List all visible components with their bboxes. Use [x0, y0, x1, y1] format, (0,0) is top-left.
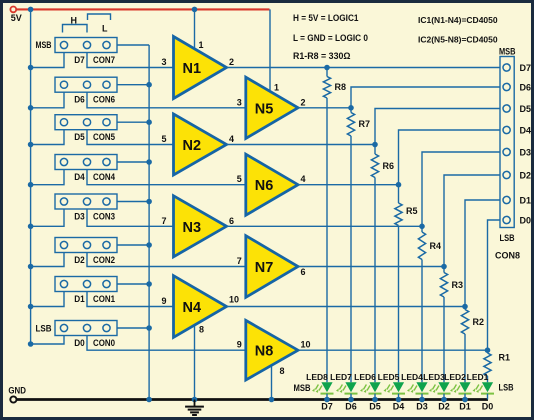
wire R3 to LED3 — [443, 297, 445, 382]
label D2 (LED bit) — [438, 402, 450, 412]
resistor R4 — [418, 226, 425, 259]
wire buffer output to CON8 D5 — [227, 109, 503, 148]
svg-text:CON4: CON4 — [93, 172, 115, 182]
svg-text:7: 7 — [237, 256, 242, 266]
wire CON1 left pin to 5V rail — [31, 292, 64, 307]
5V rail (red) — [16, 8, 269, 10]
wire CON4 middle pin to buffer input — [87, 170, 246, 185]
svg-text:LED1: LED1 — [467, 372, 489, 382]
label R7 — [359, 119, 371, 129]
svg-text:R8: R8 — [335, 82, 347, 92]
wire N1 output to CON8 D7 — [227, 65, 503, 71]
junction on mid rail — [146, 159, 152, 165]
svg-text:CON6: CON6 — [93, 95, 115, 105]
label D6 (LED bit) — [345, 402, 357, 412]
wire R7 to LED7 — [350, 136, 352, 382]
wire R6 to LED6 — [374, 178, 376, 383]
resistor R7 — [347, 108, 354, 136]
svg-text:D0: D0 — [74, 338, 85, 348]
wire CON6 middle pin to buffer input — [87, 92, 246, 108]
svg-text:R2: R2 — [473, 317, 485, 327]
wire CON0 middle pin to buffer input — [87, 336, 246, 351]
svg-text:D5: D5 — [74, 132, 85, 142]
svg-text:D3: D3 — [74, 212, 85, 222]
junction on mid rail — [146, 119, 152, 125]
wire CON2 right pin to ground rail — [117, 244, 149, 246]
svg-text:CON5: CON5 — [93, 132, 115, 142]
label LED3 — [423, 372, 445, 382]
pin label 4 (N2 output) — [229, 134, 234, 144]
svg-text:7: 7 — [161, 216, 166, 226]
svg-text:CON0: CON0 — [93, 338, 115, 348]
note IC2 — [418, 35, 498, 45]
wire buffer output to CON8 D6 — [298, 87, 502, 111]
label MSB (LED row) — [294, 383, 311, 393]
wire CON3 left pin to 5V rail — [31, 209, 64, 226]
wire R1 to LED1 — [487, 376, 489, 382]
svg-text:D2: D2 — [520, 171, 532, 181]
svg-text:LED5: LED5 — [378, 372, 400, 382]
wire CON7 left pin to 5V rail — [31, 53, 64, 68]
pin label 9 (N4 input) — [161, 296, 166, 306]
wire buffer output to CON8 D3 — [227, 152, 503, 229]
connector CON4 — [55, 155, 117, 183]
note IC1 — [418, 15, 498, 25]
svg-text:L = GND = LOGIC 0: L = GND = LOGIC 0 — [293, 33, 368, 44]
svg-text:R3: R3 — [452, 280, 464, 290]
wire CON7 middle pin to buffer input — [87, 53, 174, 68]
wire R5 to LED5 — [398, 226, 400, 383]
svg-text:N8: N8 — [255, 344, 274, 360]
svg-text:MSB: MSB — [499, 47, 516, 57]
buffer N8 — [246, 320, 298, 380]
svg-text:D2: D2 — [438, 402, 450, 412]
ground rail — [17, 398, 489, 401]
svg-text:LED8: LED8 — [306, 372, 328, 382]
wire R8 to LED8 — [326, 98, 328, 382]
svg-text:D3: D3 — [520, 148, 532, 158]
label R6 — [383, 161, 395, 171]
wire R2 to LED2 — [464, 334, 466, 382]
svg-text:5V: 5V — [11, 13, 22, 23]
label LED2 — [444, 372, 466, 382]
label L bracket — [88, 14, 111, 34]
svg-text:R5: R5 — [406, 206, 418, 216]
svg-text:D1: D1 — [520, 196, 532, 206]
svg-text:IC2(N5-N8)=CD4050: IC2(N5-N8)=CD4050 — [418, 35, 498, 45]
label H bracket — [63, 16, 88, 33]
wire IC2 pin8 to ground — [269, 365, 285, 402]
svg-text:GND: GND — [8, 385, 26, 395]
wire buffer output to CON8 D0 — [298, 220, 502, 353]
label R3 — [452, 280, 464, 290]
label LSB (CON0) — [36, 324, 52, 334]
label LED7 — [330, 372, 352, 382]
resistor R3 — [440, 267, 447, 298]
label LED1 — [467, 372, 489, 382]
pin label 10 (N8 output) — [301, 340, 311, 350]
junction on mid rail — [146, 199, 152, 205]
svg-text:N5: N5 — [255, 101, 274, 117]
buffer N5 — [246, 77, 298, 138]
svg-text:N7: N7 — [255, 260, 274, 276]
svg-text:MSB: MSB — [294, 383, 311, 393]
wire CON4 left pin to 5V rail — [31, 170, 64, 185]
svg-text:N6: N6 — [255, 178, 274, 194]
buffer N1 — [174, 37, 227, 99]
junction LED3 at ground rail — [441, 397, 447, 403]
pin label 5 (N2 input) — [161, 134, 166, 144]
wire CON3 middle pin to buffer input — [87, 209, 174, 226]
svg-text:N3: N3 — [183, 220, 202, 236]
svg-text:CON1: CON1 — [93, 294, 115, 304]
svg-text:3: 3 — [161, 57, 166, 67]
svg-text:D1: D1 — [74, 294, 85, 304]
label D5 (LED bit) — [369, 402, 381, 412]
svg-text:LED4: LED4 — [401, 372, 423, 382]
svg-text:LED6: LED6 — [354, 372, 376, 382]
svg-text:4: 4 — [229, 134, 234, 144]
svg-text:LED3: LED3 — [423, 372, 445, 382]
label LED6 — [354, 372, 376, 382]
junction LED6 at ground rail — [372, 397, 378, 403]
svg-text:LSB: LSB — [499, 383, 514, 393]
label R1 — [499, 353, 511, 363]
svg-text:8: 8 — [280, 366, 285, 376]
label LSB (LED row) — [499, 383, 514, 393]
svg-text:1: 1 — [199, 40, 204, 50]
wire CON5 middle pin to buffer input — [87, 130, 174, 145]
connector CON2 — [55, 238, 117, 266]
wire buffer output to CON8 D1 — [227, 200, 503, 309]
wire LED8 to ground — [326, 394, 328, 400]
svg-text:N1: N1 — [183, 61, 202, 77]
pin label 9 (N8 input) — [237, 340, 242, 350]
pin label 6 (N7 output) — [301, 267, 306, 277]
pin label 3 (N5 input) — [237, 97, 242, 107]
svg-text:D4: D4 — [520, 126, 532, 136]
wire IC1 pin1 from 5V rail — [192, 7, 204, 50]
label LSB (CON8) — [500, 233, 515, 243]
resistor R8 — [323, 68, 330, 99]
svg-text:D0: D0 — [482, 402, 494, 412]
svg-text:LSB: LSB — [36, 324, 52, 334]
svg-text:R7: R7 — [359, 119, 371, 129]
resistor R1 — [484, 350, 491, 376]
svg-text:D6: D6 — [345, 402, 357, 412]
pin label 4 (N6 output) — [301, 174, 306, 184]
junction LED5 at ground rail — [396, 397, 402, 403]
wire CON3 right pin to ground rail — [117, 201, 149, 203]
connector CON8 — [500, 57, 514, 228]
svg-text:N2: N2 — [183, 138, 202, 154]
svg-text:L: L — [102, 24, 108, 34]
svg-text:IC1(N1-N4)=CD4050: IC1(N1-N4)=CD4050 — [418, 15, 498, 25]
svg-text:1: 1 — [274, 83, 279, 93]
label D0 (LED bit) — [482, 402, 494, 412]
svg-text:D7: D7 — [321, 402, 333, 412]
junction LED7 at ground rail — [348, 397, 354, 403]
svg-text:6: 6 — [301, 267, 306, 277]
LED LED2 — [450, 382, 472, 393]
wire CON5 left pin to 5V rail — [31, 130, 64, 145]
pin label 6 (N3 output) — [229, 216, 234, 226]
svg-text:9: 9 — [161, 296, 166, 306]
svg-text:H = 5V = LOGIC1: H = 5V = LOGIC1 — [293, 13, 359, 24]
wire LED2 to ground — [464, 394, 466, 400]
wire CON1 right pin to ground rail — [117, 283, 149, 285]
wire R4 to LED4 — [421, 260, 423, 383]
junction on 5V rail — [28, 304, 34, 310]
connector CON3 — [55, 194, 117, 222]
buffer N3 — [174, 196, 227, 257]
LED LED7 — [336, 382, 358, 393]
svg-text:D4: D4 — [74, 172, 85, 182]
resistor R5 — [395, 185, 402, 226]
junction on 5V rail — [28, 65, 34, 71]
label MSB (CON8) — [499, 47, 516, 57]
svg-text:9: 9 — [237, 340, 242, 350]
junction mid rail at ground — [146, 397, 152, 403]
wire LED1 to ground — [487, 394, 489, 400]
wire CON7 right pin to ground rail — [117, 44, 149, 46]
label LED5 — [378, 372, 400, 382]
svg-text:8: 8 — [199, 325, 204, 335]
wire CON6 right pin to ground rail — [117, 84, 149, 86]
svg-text:D6: D6 — [74, 95, 85, 105]
label D4 (LED bit) — [393, 402, 405, 412]
wire LED6 to ground — [374, 394, 376, 400]
label CON8 — [495, 251, 520, 261]
note resistor values — [293, 51, 351, 62]
svg-text:10: 10 — [301, 340, 311, 350]
LED LED8 — [312, 382, 334, 393]
svg-text:D5: D5 — [369, 402, 381, 412]
svg-text:D6: D6 — [520, 83, 532, 93]
junction on 5V rail — [28, 105, 34, 111]
junction on mid rail — [146, 281, 152, 287]
svg-text:CON3: CON3 — [93, 212, 115, 222]
connector CON0 — [55, 321, 117, 349]
svg-text:2: 2 — [229, 57, 234, 67]
wire CON2 middle pin to buffer input — [87, 253, 246, 267]
svg-text:CON2: CON2 — [93, 255, 115, 265]
resistor R2 — [461, 307, 468, 335]
svg-text:D7: D7 — [520, 63, 532, 73]
pin label 10 (N4 output) — [229, 295, 239, 305]
wire LED5 to ground — [398, 394, 400, 400]
connector CON1 — [55, 277, 117, 305]
svg-text:D0: D0 — [520, 216, 532, 226]
label R2 — [473, 317, 485, 327]
svg-text:D2: D2 — [74, 255, 85, 265]
svg-text:4: 4 — [301, 174, 306, 184]
svg-text:CON8: CON8 — [495, 251, 520, 261]
svg-text:5: 5 — [237, 174, 242, 184]
svg-text:MSB: MSB — [36, 40, 52, 50]
wire CON6 left pin to 5V rail — [31, 92, 64, 108]
svg-text:5: 5 — [161, 134, 166, 144]
ground symbol — [185, 400, 204, 416]
wire 5V left rail — [28, 7, 34, 344]
connector CON7 — [55, 38, 117, 66]
label D3 (LED bit) — [416, 402, 428, 412]
note H logic — [293, 13, 359, 24]
LED LED5 — [384, 382, 406, 393]
pin label 7 (N3 input) — [161, 216, 166, 226]
junction on 5V rail — [28, 182, 34, 188]
LED LED4 — [407, 382, 429, 393]
wire CON5 right pin to ground rail — [117, 121, 149, 123]
pin label 2 (N5 output) — [301, 97, 306, 107]
buffer N6 — [246, 154, 298, 215]
wire CON4 right pin to ground rail — [117, 161, 149, 163]
wire buffer output to CON8 D4 — [298, 130, 502, 188]
note L logic — [293, 33, 368, 44]
LED LED1 — [473, 382, 495, 393]
label MSB (CON7) — [36, 40, 52, 50]
svg-text:3: 3 — [237, 97, 242, 107]
svg-text:R6: R6 — [383, 161, 395, 171]
LED LED6 — [360, 382, 382, 393]
GND terminal — [8, 385, 26, 402]
wire CON0 left pin to 5V rail — [31, 336, 64, 345]
5V supply terminal — [10, 6, 21, 22]
wire CON2 left pin to 5V rail — [31, 253, 64, 267]
buffer N7 — [246, 236, 298, 298]
svg-text:D5: D5 — [520, 104, 532, 114]
wire LED3 to ground — [443, 394, 445, 400]
label R4 — [430, 241, 442, 251]
wire LED7 to ground — [350, 394, 352, 400]
svg-text:LSB: LSB — [500, 233, 515, 243]
resistor R6 — [371, 145, 378, 178]
connector CON5 — [55, 115, 117, 143]
pin label 7 (N7 input) — [237, 256, 242, 266]
label R8 — [335, 82, 347, 92]
svg-text:D3: D3 — [416, 402, 428, 412]
junction LED2 at ground rail — [462, 397, 468, 403]
svg-text:CON7: CON7 — [93, 55, 115, 65]
junction on mid rail — [146, 242, 152, 248]
wire LED4 to ground — [421, 394, 423, 400]
wire buffer output to CON8 D2 — [298, 175, 502, 269]
svg-text:R4: R4 — [430, 241, 442, 251]
junction on mid rail — [146, 325, 152, 331]
junction on 5V rail — [28, 341, 34, 347]
junction on mid rail — [146, 82, 152, 88]
labels CON8 pins — [520, 63, 532, 226]
junction on 5V rail — [28, 224, 34, 230]
junction on 5V rail — [28, 142, 34, 148]
svg-text:H: H — [71, 16, 78, 26]
junction LED8 at ground rail — [324, 397, 330, 403]
LED LED3 — [429, 382, 451, 393]
wire mid ground rail — [148, 45, 150, 400]
wire IC1 pin8 to ground — [192, 324, 204, 402]
junction LED4 at ground rail — [419, 397, 425, 403]
svg-text:LED7: LED7 — [330, 372, 352, 382]
svg-text:R1-R8 = 330Ω: R1-R8 = 330Ω — [293, 51, 351, 62]
svg-text:R1: R1 — [499, 353, 511, 363]
label LED4 — [401, 372, 423, 382]
label D1 (LED bit) — [459, 402, 471, 412]
svg-text:D7: D7 — [74, 55, 85, 65]
pin label 2 (N1 output) — [229, 57, 234, 67]
pin label 3 (N1 input) — [161, 57, 166, 67]
label R5 — [406, 206, 418, 216]
wire CON1 middle pin to buffer input — [87, 292, 174, 307]
svg-text:LED2: LED2 — [444, 372, 466, 382]
label LED8 — [306, 372, 328, 382]
svg-text:D4: D4 — [393, 402, 405, 412]
wire IC2 pin1 from 5V rail — [270, 9, 279, 92]
svg-text:10: 10 — [229, 295, 239, 305]
connector CON6 — [55, 77, 117, 105]
pin label 5 (N6 input) — [237, 174, 242, 184]
svg-text:6: 6 — [229, 216, 234, 226]
buffer N2 — [174, 114, 227, 175]
label D7 (LED bit) — [321, 402, 333, 412]
wire CON0 right pin to ground rail — [117, 327, 149, 329]
svg-text:2: 2 — [301, 97, 306, 107]
svg-text:D1: D1 — [459, 402, 471, 412]
junction on 5V rail — [28, 264, 34, 270]
svg-text:N4: N4 — [183, 300, 202, 316]
buffer N4 — [174, 276, 227, 338]
